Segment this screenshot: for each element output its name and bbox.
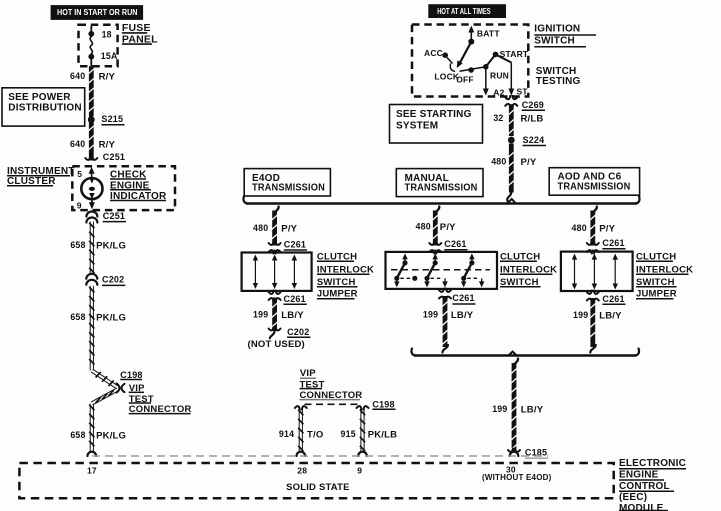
svg-text:C198: C198 [120,370,142,380]
svg-text:480: 480 [416,222,431,232]
svg-text:LB/Y: LB/Y [521,404,544,415]
svg-text:T/O: T/O [307,429,323,440]
svg-text:(EEC): (EEC) [619,492,647,503]
svg-text:658: 658 [70,430,85,440]
svg-text:ST: ST [517,87,529,97]
svg-text:R/Y: R/Y [99,71,116,82]
svg-text:C261: C261 [444,239,466,249]
svg-text:ELECTRONIC: ELECTRONIC [619,458,686,469]
svg-text:640: 640 [70,71,85,81]
svg-text:SEE POWER: SEE POWER [8,92,71,103]
svg-text:658: 658 [70,312,85,322]
svg-text:32: 32 [493,113,503,123]
svg-text:480: 480 [491,156,506,166]
svg-text:C202: C202 [287,327,309,337]
svg-text:17: 17 [87,466,97,476]
svg-text:480: 480 [253,223,268,233]
svg-text:PK/LG: PK/LG [96,240,126,251]
svg-text:BATT: BATT [477,29,500,39]
svg-text:C251: C251 [103,152,125,162]
svg-text:C261: C261 [284,294,306,304]
svg-text:SYSTEM: SYSTEM [396,121,438,132]
svg-text:199: 199 [253,310,268,320]
svg-text:A2: A2 [493,87,504,97]
svg-text:S215: S215 [101,114,123,124]
svg-text:914: 914 [279,429,294,439]
svg-text:LB/Y: LB/Y [599,310,622,321]
svg-text:199: 199 [492,404,507,414]
svg-text:C261: C261 [602,238,624,248]
svg-text:S224: S224 [523,135,545,145]
svg-text:199: 199 [423,310,438,320]
svg-text:9: 9 [357,466,362,476]
svg-text:P/Y: P/Y [599,223,615,234]
svg-text:VIP: VIP [300,368,316,379]
svg-text:TRANSMISSION: TRANSMISSION [252,183,325,194]
svg-text:658: 658 [70,240,85,250]
svg-text:R/LB: R/LB [521,113,544,124]
svg-text:C261: C261 [602,294,624,304]
svg-text:RUN: RUN [490,70,509,80]
svg-text:DISTRIBUTION: DISTRIBUTION [8,102,82,113]
svg-text:ENGINE: ENGINE [619,470,659,481]
svg-text:CONTROL: CONTROL [619,481,670,492]
svg-text:PK/LG: PK/LG [96,430,126,441]
svg-text:15A: 15A [101,51,118,61]
svg-text:(WITHOUT E4OD): (WITHOUT E4OD) [482,473,552,482]
svg-text:199: 199 [573,310,588,320]
svg-text:9: 9 [77,201,82,211]
svg-text:(NOT USED): (NOT USED) [248,339,305,350]
svg-text:TRANSMISSION: TRANSMISSION [405,183,478,194]
svg-text:C198: C198 [372,399,394,409]
svg-text:C261: C261 [284,239,306,249]
svg-text:LB/Y: LB/Y [451,310,474,321]
svg-text:480: 480 [572,223,587,233]
svg-text:C202: C202 [102,275,124,285]
svg-text:PK/LG: PK/LG [96,312,126,323]
svg-text:P/Y: P/Y [521,157,537,168]
svg-text:C269: C269 [522,100,544,110]
svg-text:OFF: OFF [456,75,474,85]
svg-text:HOT IN START OR RUN: HOT IN START OR RUN [57,8,138,17]
svg-text:HOT AT ALL TIMES: HOT AT ALL TIMES [437,7,491,16]
svg-text:5: 5 [77,169,82,179]
svg-text:18: 18 [102,29,112,39]
svg-text:28: 28 [297,466,307,476]
svg-text:P/Y: P/Y [281,224,297,235]
svg-text:C261: C261 [452,293,474,303]
svg-text:IGNITION: IGNITION [534,24,580,35]
svg-text:TRANSMISSION: TRANSMISSION [558,182,631,193]
svg-text:C251: C251 [103,211,125,221]
svg-text:SEE STARTING: SEE STARTING [396,109,472,120]
svg-text:ACC: ACC [424,48,443,58]
svg-text:915: 915 [341,429,356,439]
svg-text:TESTING: TESTING [536,76,581,87]
svg-text:LB/Y: LB/Y [281,310,304,321]
svg-text:PK/LB: PK/LB [368,429,398,440]
svg-text:SOLID STATE: SOLID STATE [286,482,350,493]
svg-text:SWITCH: SWITCH [534,35,575,46]
svg-text:R/Y: R/Y [99,139,116,150]
svg-text:P/Y: P/Y [440,222,456,233]
svg-text:640: 640 [70,139,85,149]
